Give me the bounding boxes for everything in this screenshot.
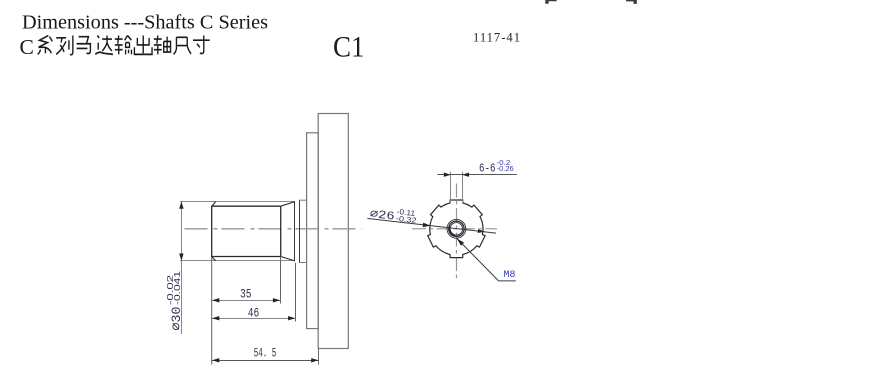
- M8 text: [504, 269, 516, 281]
- title line 2 hanzi cun: [193, 36, 210, 54]
- dim 6-6 left extension: [450, 172, 452, 204]
- page edge fragment left: [545, 0, 556, 4]
- svg-text:C: C: [20, 35, 34, 59]
- svg-text:⌀30: ⌀30: [169, 307, 184, 331]
- svg-text:-0.26: -0.26: [497, 164, 514, 173]
- motor body: [318, 114, 348, 349]
- dia30 dimension line: [179, 202, 183, 335]
- shaft chamfer bottom left: [212, 257, 216, 261]
- dim 54.5 left extension: [211, 257, 213, 364]
- dia26 dimension text: [369, 204, 418, 226]
- collar top edge: [299, 199, 307, 201]
- shaft end face: [211, 206, 213, 258]
- collar front face: [299, 200, 301, 262]
- dim 54.5 right extension: [318, 349, 320, 365]
- title line 2 hanzi lie: [56, 36, 73, 55]
- title line 2 hanzi shu: [115, 36, 132, 55]
- spline profile: [428, 200, 485, 258]
- shaft spline root bottom line: [212, 256, 281, 258]
- title line 2 hanzi da: [95, 36, 113, 55]
- dim 54.5 text: [254, 346, 276, 361]
- dim 35 text: [240, 287, 252, 302]
- title line 2 hanzi xi: [38, 36, 53, 55]
- title line 2 hanzi ma: [77, 37, 91, 54]
- drawing number 1117-41: [473, 30, 521, 45]
- center line left view: [185, 228, 363, 230]
- dim 35 extension right: [280, 257, 282, 304]
- center hole minor circle: [450, 223, 462, 235]
- svg-text:M8: M8: [504, 269, 516, 281]
- dia30 dimension text: [166, 270, 184, 330]
- svg-text:46: 46: [248, 305, 259, 320]
- spline runout taper top: [281, 202, 295, 207]
- svg-text:1117-41: 1117-41: [473, 30, 521, 45]
- shaft OD thin line bottom: [180, 260, 295, 262]
- title line 1: [22, 13, 268, 34]
- svg-text:C1: C1: [333, 31, 365, 64]
- spline end vertical: [280, 206, 282, 256]
- svg-text:6-6: 6-6: [479, 161, 496, 175]
- center hole outer circle: [447, 219, 466, 238]
- title line 2 letter C: [20, 35, 34, 59]
- title line 2 hanzi chi: [174, 37, 192, 54]
- title line 2 hanzi chu: [134, 36, 152, 55]
- page edge fragment right: [626, 0, 637, 4]
- dim 6-6 line: [437, 173, 516, 177]
- dia26 dimension leader and line: [367, 218, 496, 233]
- thread thick arc: [449, 226, 455, 236]
- svg-text:54. 5: 54. 5: [254, 346, 276, 361]
- svg-text:Dimensions ---Shafts C Series: Dimensions ---Shafts C Series: [22, 13, 268, 34]
- right view vertical center line: [456, 184, 458, 282]
- svg-text:35: 35: [240, 287, 252, 302]
- svg-text:-0.32: -0.32: [395, 214, 416, 225]
- dim 46 text: [248, 305, 259, 320]
- dim 35 line: [212, 298, 281, 302]
- shaft OD thin line top: [180, 201, 295, 203]
- shaft spline root top line: [212, 205, 281, 207]
- mounting flange: [307, 133, 319, 329]
- dim 54.5 line: [212, 358, 319, 362]
- right view horizontal center line: [412, 228, 497, 230]
- shaft cylinder end vertical: [294, 202, 296, 261]
- dim 6-6 right extension: [462, 172, 464, 204]
- dim 6-6 text: [479, 158, 514, 176]
- dim 46 line: [212, 316, 296, 320]
- title line 2 hanzi zhou: [154, 36, 171, 55]
- collar bottom edge: [299, 262, 307, 264]
- dim 46 extension right: [295, 263, 297, 322]
- svg-text:⌀26: ⌀26: [369, 208, 395, 224]
- shaft chamfer top left: [212, 202, 216, 207]
- center hole thread circle: [449, 221, 464, 236]
- sheet code C1: [333, 31, 365, 64]
- M8 leader: [457, 239, 516, 281]
- svg-text:-0.041: -0.041: [173, 270, 182, 305]
- spline runout taper bottom: [281, 257, 295, 261]
